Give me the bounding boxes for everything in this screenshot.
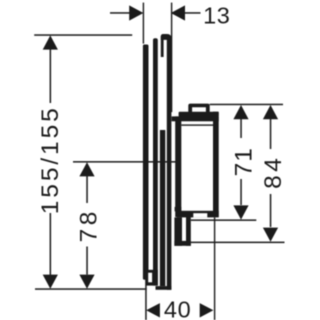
dim 40 right extension line <box>214 218 215 320</box>
dim 78 bottom arrow <box>79 275 94 289</box>
cartridge box left wall <box>175 116 181 217</box>
dim 40 left arrow <box>146 303 160 317</box>
dim 40 right arrow <box>200 303 214 317</box>
cartridge box bottom step <box>175 207 182 211</box>
svg-text:71: 71 <box>230 147 257 176</box>
lower protrusion right wall <box>186 217 191 246</box>
lower protrusion left wall <box>174 217 182 245</box>
dim 13 right extension line <box>171 3 172 113</box>
svg-text:78: 78 <box>75 208 102 242</box>
dim 40 left extension line <box>145 280 147 320</box>
dim 13 left arrow <box>129 5 143 20</box>
cartridge box bottom cap <box>177 211 219 218</box>
dim 13 dimension line left segment <box>110 12 130 14</box>
dim 71/84 top reference line <box>210 104 283 106</box>
dim 71 line upper segment <box>240 117 242 138</box>
svg-text:155/155: 155/155 <box>37 105 64 214</box>
escutcheon plate cross-section (solid bar) <box>143 45 149 280</box>
svg-text:40: 40 <box>164 297 191 320</box>
plate foot block around white notch <box>146 270 157 286</box>
dim 78 top arrow <box>79 162 94 176</box>
svg-text:13: 13 <box>203 2 230 28</box>
dim 78 top reference line / centerline <box>73 161 176 163</box>
carrier head cap <box>161 34 172 40</box>
dim 13 left extension line <box>143 3 144 44</box>
cartridge bottom cap white notch <box>193 213 207 217</box>
dim 71 bottom arrow <box>233 205 248 219</box>
plate foot white notch <box>148 273 152 283</box>
lower protrusion bottom cap <box>174 241 190 246</box>
cartridge box top cap <box>179 112 219 117</box>
dim 78 line upper segment <box>86 174 88 203</box>
dim 155/78 bottom reference line <box>35 288 147 290</box>
dim 13 right arrow <box>171 5 185 20</box>
cartridge box top band <box>172 116 219 121</box>
dim 155/155 bottom arrow <box>43 275 58 289</box>
button bump outline <box>188 104 209 113</box>
carrier left leg <box>153 38 158 285</box>
dim 84 bottom arrow <box>263 228 278 242</box>
carrier bottom cap <box>156 286 172 290</box>
dim 155/155 top reference line <box>34 34 132 36</box>
cartridge box right wall <box>213 112 219 217</box>
dim 84 bottom reference line <box>191 242 285 244</box>
dim 78 line lower segment <box>86 247 88 275</box>
carrier head left wall <box>161 36 164 57</box>
dim 84 line upper segment <box>270 117 272 149</box>
dim 71 top arrow <box>233 105 248 119</box>
carrier inner bar <box>160 130 165 286</box>
dim 155/155 top arrow <box>43 35 58 49</box>
cartridge inner seam line <box>181 124 213 125</box>
dim 84 top arrow <box>263 105 278 119</box>
dim 155/155 line upper segment <box>50 48 52 103</box>
svg-text:84: 84 <box>260 155 287 189</box>
dim 84 line lower segment <box>270 194 272 227</box>
dim 13 dimension line right segment <box>185 12 201 14</box>
dim 155/155 line lower segment <box>50 213 52 275</box>
carrier right leg <box>167 36 172 290</box>
dim 71 line lower segment <box>240 179 242 205</box>
dim 71 bottom reference line <box>191 219 256 221</box>
